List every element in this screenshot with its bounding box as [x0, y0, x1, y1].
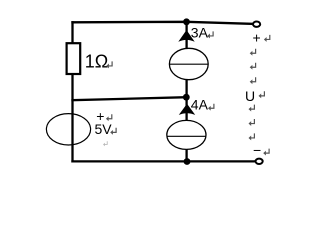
svg-text:5V: 5V [95, 121, 113, 137]
svg-text:U: U [245, 88, 255, 104]
svg-text:−: − [253, 142, 261, 158]
svg-text:3A: 3A [191, 24, 209, 40]
svg-text:1Ω: 1Ω [85, 52, 108, 72]
svg-text:4A: 4A [191, 97, 209, 113]
svg-text:+: + [253, 29, 261, 45]
